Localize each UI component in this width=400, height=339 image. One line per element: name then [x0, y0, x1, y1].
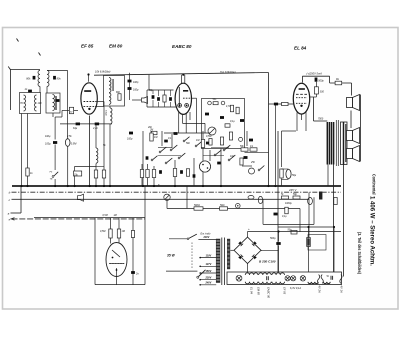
- resistor R24: [280, 169, 283, 178]
- svg-text:EM 80: EM 80: [257, 287, 261, 295]
- capacitor C1 1n: [28, 90, 32, 93]
- detector pin circle: [208, 101, 212, 105]
- capacitor C36 oval: [258, 196, 262, 203]
- capacitor C21: [308, 197, 313, 204]
- wire sw verticals: [161, 131, 163, 146]
- resistor R8 50n: [213, 102, 218, 105]
- svg-text:EM 80: EM 80: [109, 44, 123, 49]
- capacitor C11: [169, 97, 172, 101]
- wire det drop: [148, 75, 150, 90]
- resistor R2 0,5M oval: [65, 139, 70, 147]
- wire bus e: [12, 218, 146, 220]
- wire tube pins down: [178, 112, 180, 133]
- capacitor C5b 2,2n: [95, 123, 99, 126]
- svg-text:50µ: 50µ: [292, 174, 297, 177]
- heater winding w5: [323, 282, 330, 284]
- tube EM80 cathode: [116, 268, 118, 277]
- output transformer Tr2 windings: [326, 122, 328, 165]
- IF coil L2: [47, 70, 49, 86]
- capacitor C8 100p: [129, 132, 133, 135]
- switch S4: [178, 157, 180, 159]
- capacitor C37: [274, 213, 278, 216]
- capacitor C6 100p: [128, 80, 132, 83]
- resistor R23 1M: [282, 102, 289, 105]
- svg-text:Ton 6,8kΩ(w): Ton 6,8kΩ(w): [220, 70, 236, 74]
- svg-text:0,5M: 0,5M: [100, 230, 105, 233]
- bridge diodes: [238, 241, 243, 246]
- wire EF85 screen to rail: [88, 75, 90, 82]
- wire L2 down: [46, 86, 48, 93]
- wire bridge plus vertical: [247, 232, 249, 238]
- transformer feed top: [198, 238, 216, 240]
- wire minus down: [247, 264, 249, 273]
- resistor R22 Rx: [335, 81, 342, 85]
- resistor R19 50: [220, 207, 228, 210]
- wire heater link: [262, 199, 264, 224]
- capacitor C23: [249, 139, 253, 142]
- speaker LS1: [347, 98, 353, 108]
- switch S3: [170, 149, 172, 151]
- tube EL84 grids: [296, 93, 307, 95]
- tube EL84 anode bar: [299, 88, 305, 90]
- small parts row y196: [282, 196, 289, 199]
- resistor R10: [229, 132, 232, 140]
- transformer tap wires: [200, 257, 217, 259]
- capacitor C22 0,1: [285, 207, 288, 214]
- wire output rail: [302, 75, 329, 77]
- wire grid: [74, 110, 78, 112]
- tube EF85 cathode dot: [88, 108, 90, 110]
- capacitor C31: [146, 156, 149, 159]
- wire EABC top: [181, 75, 183, 84]
- wire eye top line: [34, 217, 145, 219]
- svg-text:50p: 50p: [149, 89, 154, 92]
- capacitor C16: [174, 132, 178, 135]
- svg-text:0,1µ: 0,1µ: [230, 120, 235, 123]
- heater winding w3: [272, 273, 285, 275]
- wire eye pin down: [116, 277, 118, 285]
- tube EABC80 anode bar: [183, 90, 188, 92]
- resistor R21: [334, 198, 337, 205]
- resistor R9 4,7k: [230, 105, 233, 112]
- svg-text:EL 84: EL 84: [294, 46, 307, 51]
- wire bus c: [12, 198, 310, 200]
- svg-text:(+)250V 5mA: (+)250V 5mA: [307, 71, 323, 75]
- wire det bottom: [147, 106, 176, 108]
- IF can 2 outline: [104, 76, 125, 107]
- output transformer core: [335, 120, 337, 166]
- wire speaker common: [360, 95, 362, 162]
- tube EL84 anode out: [309, 96, 313, 98]
- potentiometer P3: [208, 127, 216, 135]
- capacitor C4 33u: [74, 171, 82, 176]
- svg-text:EL 84: EL 84: [250, 287, 254, 294]
- heater winding w2: [259, 273, 272, 275]
- wire diode line: [147, 89, 174, 91]
- svg-text:1M: 1M: [114, 215, 117, 217]
- winding separator 1: [318, 275, 320, 284]
- switch link dashed: [191, 243, 193, 270]
- resistor R17 1M: [201, 140, 204, 148]
- eye bottom line: [95, 284, 145, 286]
- tube EABC80 cathode circles: [178, 104, 182, 108]
- wire sw drop1: [193, 158, 195, 186]
- capacitor C10: [157, 97, 160, 101]
- motor symbol: [236, 204, 241, 209]
- pilot lamp La1: [236, 275, 242, 281]
- resistor R16: [173, 169, 176, 177]
- primary winding: [216, 239, 220, 283]
- eye left leg: [94, 218, 96, 285]
- tube EM80 deflector: [112, 250, 120, 257]
- svg-text:4V 2A: 4V 2A: [318, 286, 322, 294]
- svg-text:100p: 100p: [133, 89, 139, 92]
- junctions right: [277, 230, 279, 232]
- capacitor C17: [159, 170, 162, 174]
- stray pen mark: [17, 39, 19, 42]
- svg-text:0,5M: 0,5M: [206, 135, 211, 138]
- coil L8: [109, 93, 111, 104]
- wire 33u feed: [75, 165, 96, 167]
- svg-text:2,5k: 2,5k: [66, 135, 72, 138]
- capacitor C32: [164, 140, 168, 143]
- switch S7: [223, 149, 225, 151]
- resistor R32: [209, 139, 212, 146]
- resistor R7: [163, 95, 166, 102]
- svg-text:50Ω: 50Ω: [220, 204, 225, 207]
- tube EL84 V3 envelope: [293, 83, 309, 114]
- svg-text:100p: 100p: [127, 138, 133, 141]
- svg-text:Continental: Continental: [372, 174, 377, 195]
- wire det link: [132, 99, 142, 101]
- capacitor C18: [180, 170, 183, 174]
- wire stub a: [11, 212, 22, 214]
- tube EABC80 triode grid: [183, 97, 191, 99]
- wire cap column: [129, 73, 131, 100]
- coupling box lower coils: [20, 93, 41, 114]
- svg-text:35 W: 35 W: [167, 254, 176, 258]
- wire top right rail: [278, 226, 335, 228]
- tube EF85 anode bar: [84, 90, 91, 92]
- capacitor C5 64u: [76, 123, 80, 126]
- svg-text:1 406 W – Stereo Achtm.: 1 406 W – Stereo Achtm.: [369, 196, 376, 266]
- tube EF85 grids: [84, 101, 96, 103]
- mains switch S9: [187, 238, 189, 240]
- wire x308 drop: [308, 227, 310, 272]
- detector pin circle 2: [221, 101, 225, 105]
- svg-text:500p: 500p: [318, 79, 324, 82]
- coil L4: [35, 95, 37, 111]
- wire speaker feed: [351, 83, 353, 96]
- wire bus b: [12, 191, 342, 193]
- winding separator 2: [340, 275, 342, 284]
- tube EABC80 V2 envelope: [175, 83, 191, 114]
- screen bypass line: [60, 123, 112, 125]
- svg-text:+: +: [248, 227, 250, 231]
- svg-text:500Ω: 500Ω: [194, 204, 200, 207]
- resistor R33 300: [314, 87, 318, 94]
- wire g2 drop: [103, 102, 105, 171]
- svg-text:EABC 80: EABC 80: [267, 287, 271, 299]
- wire plus rail: [248, 231, 342, 233]
- heater bus enclosure: [227, 272, 342, 285]
- switch S6: [214, 154, 216, 156]
- capacitor C24 500p: [315, 78, 318, 82]
- wire can2 down: [52, 113, 54, 117]
- svg-text:EF 85: EF 85: [81, 44, 94, 49]
- resistor R4: [102, 170, 105, 178]
- svg-text:100: 100: [38, 102, 43, 105]
- wire sw drop2: [209, 150, 211, 161]
- transformer core: [221, 238, 223, 286]
- svg-text:(3. Teil des Schaltbildes): (3. Teil des Schaltbildes): [357, 232, 362, 274]
- svg-text:240V: 240V: [205, 282, 212, 285]
- switch S8: [228, 159, 230, 161]
- tube EABC80 divider: [178, 87, 180, 107]
- wire vol down: [220, 149, 222, 187]
- capacitor C35 oval: [248, 196, 254, 200]
- wire box to el84 drop: [245, 151, 269, 153]
- svg-text:EF 85: EF 85: [283, 287, 287, 295]
- wire x334 drop: [333, 227, 335, 272]
- tube EM80 target: [109, 263, 124, 265]
- svg-text:2,2n: 2,2n: [92, 127, 98, 130]
- secondary winding HT: [227, 239, 230, 269]
- switch S5: [165, 162, 167, 164]
- svg-text:1M: 1M: [154, 136, 157, 139]
- grid network C25: [274, 103, 278, 106]
- resistor R30 50u: [291, 230, 297, 234]
- svg-text:220V: 220V: [205, 277, 212, 280]
- tube EL84 cathode dot: [300, 105, 302, 107]
- svg-text:300: 300: [320, 91, 325, 94]
- wire cathode drop: [281, 131, 283, 167]
- capacitor C1b 80s: [53, 76, 56, 80]
- wire bridge right vertex: [261, 250, 279, 252]
- capacitor C29: [266, 276, 268, 280]
- switch S10: [195, 145, 197, 147]
- heater winding w4: [308, 282, 318, 284]
- resistor R27: [131, 231, 134, 238]
- capacitor C14: [205, 113, 209, 116]
- tube EF85 V1 envelope: [81, 83, 97, 114]
- svg-text:0,5M: 0,5M: [103, 215, 108, 217]
- resistor R9b 1M: [236, 107, 239, 114]
- svg-text:Em.-trafo: Em.-trafo: [201, 232, 212, 235]
- wire avc drop: [67, 70, 69, 139]
- wire EL84 top: [301, 76, 303, 82]
- pilot lamp La4: [300, 276, 305, 281]
- svg-text:10k 6,8kΩ(w): 10k 6,8kΩ(w): [95, 70, 111, 74]
- voltage selector arm: [197, 276, 199, 278]
- capacitor C30: [330, 276, 332, 280]
- wire grid left: [62, 110, 69, 112]
- tube EM80 V4 envelope: [106, 243, 127, 277]
- wire a riser: [20, 186, 22, 213]
- capacitor C15: [206, 142, 210, 145]
- switch S2: [159, 151, 161, 153]
- cathode cap C26 50u: [286, 169, 291, 178]
- resistor R25 0,5M: [109, 229, 112, 238]
- IF coil L1: [38, 70, 40, 86]
- svg-text:100p: 100p: [133, 81, 139, 84]
- svg-text:240V: 240V: [203, 236, 210, 239]
- resistor R15: [152, 170, 155, 178]
- wire antenna top rail: [10, 69, 40, 71]
- wire rail drop right: [268, 73, 270, 187]
- svg-text:EABC 80: EABC 80: [172, 44, 192, 49]
- svg-text:1M: 1M: [122, 230, 125, 233]
- svg-text:4V 1A: 4V 1A: [340, 286, 344, 294]
- resistor R9c: [225, 124, 230, 127]
- svg-text:1M: 1M: [196, 139, 199, 142]
- resistor R5: [118, 94, 121, 101]
- wire ls1 down: [350, 111, 352, 129]
- output transformer secondary: [341, 122, 348, 165]
- bridge rectifier B250C100: [234, 237, 261, 263]
- svg-text:2M: 2M: [149, 130, 153, 132]
- capacitor C2 100u: [53, 141, 57, 144]
- capacitor C9 50p: [152, 95, 155, 99]
- svg-text:0,1µ: 0,1µ: [282, 216, 287, 218]
- svg-text:7000: 7000: [318, 119, 324, 121]
- ground symbol circle-slash: [164, 194, 170, 200]
- second box: [46, 93, 60, 113]
- svg-text:64µ: 64µ: [73, 127, 78, 130]
- circle pin: [239, 137, 243, 141]
- wire box left down: [21, 114, 23, 187]
- capacitor C27 2n: [131, 271, 135, 274]
- coil L9 bottom: [110, 108, 112, 124]
- antenna hook: [8, 67, 10, 70]
- pilot lamp La2: [285, 276, 290, 281]
- resistor R29: [186, 169, 189, 177]
- coil L3: [24, 95, 26, 111]
- resistor R20 dark: [319, 192, 322, 200]
- capacitor C2b 2n: [56, 99, 60, 102]
- tube EF85 g2 g3 wires: [95, 101, 104, 103]
- junction dots on B+ bus: [20, 185, 22, 187]
- eye right leg: [144, 186, 146, 285]
- speaker LS3: [347, 149, 353, 159]
- resistor R3: [94, 170, 97, 178]
- resistor R13: [140, 170, 143, 178]
- wire riser x275: [274, 104, 276, 186]
- wire cathode drop: [89, 116, 91, 187]
- svg-text:25k: 25k: [250, 161, 256, 164]
- wire B+ main bus 245V: [12, 185, 341, 187]
- switch S1: [52, 176, 54, 178]
- wire sw vertical k1: [142, 131, 144, 186]
- resistor R12 1M: [150, 133, 153, 141]
- capacitor C33: [217, 162, 221, 165]
- svg-text:110V: 110V: [206, 254, 212, 257]
- capacitor C7 100p: [128, 87, 132, 90]
- svg-text:6,3V 0,1A: 6,3V 0,1A: [290, 287, 301, 290]
- wire left drop: [10, 70, 12, 110]
- svg-text:1000µ: 1000µ: [285, 202, 292, 205]
- svg-text:100µ: 100µ: [45, 135, 51, 138]
- capacitor C1a 80k: [33, 76, 36, 80]
- svg-text:500µ: 500µ: [270, 237, 276, 240]
- capacitor C28 500u: [276, 242, 280, 245]
- choke L6: [96, 148, 98, 163]
- wire +B top rail: [94, 73, 269, 76]
- resistor R28: [307, 238, 311, 247]
- wire sec down: [333, 165, 335, 273]
- resistor R18 500: [194, 207, 203, 210]
- svg-text:150V: 150V: [206, 270, 212, 273]
- coil L7: [109, 78, 111, 93]
- capacitor C13: [220, 116, 224, 119]
- switch S11: [183, 140, 185, 142]
- wire mains lead 2: [166, 270, 197, 272]
- wire tone line: [167, 208, 300, 210]
- wire x309: [308, 192, 310, 247]
- grid resistor box 20: [69, 107, 73, 113]
- wire k branch: [54, 117, 56, 140]
- svg-text:B 250 C100: B 250 C100: [259, 260, 276, 264]
- wire riser x278: [277, 131, 279, 272]
- socket J1: [199, 161, 210, 172]
- resistor R14: [146, 170, 149, 178]
- svg-text:0,5µA: 0,5µA: [105, 110, 108, 116]
- svg-text:127V: 127V: [206, 263, 212, 266]
- svg-text:0,5M: 0,5M: [71, 143, 77, 146]
- tube EABC80 grid wire out: [191, 97, 196, 99]
- speaker LS2: [347, 131, 353, 141]
- wire grid line: [269, 103, 294, 105]
- fuse box: [308, 235, 326, 251]
- wire bridge ac left: [230, 249, 234, 251]
- heater winding w1: [245, 273, 258, 275]
- capacitor C15b: [240, 119, 244, 122]
- connector trapezoid on c line: [78, 194, 84, 201]
- resistor R1 1k: [26, 168, 29, 176]
- resistor R26 1M: [117, 229, 120, 238]
- wire mains lead 1: [169, 238, 187, 240]
- wire jog: [329, 76, 331, 83]
- coil L5: [53, 95, 55, 111]
- wire L2 top link: [47, 69, 68, 71]
- switch bar S2-S5: [158, 147, 172, 149]
- wire cathode to bus: [281, 179, 283, 187]
- wire EL84 pins: [296, 113, 298, 132]
- svg-text:245 V: 245 V: [288, 188, 297, 192]
- svg-text:100µ: 100µ: [45, 143, 51, 146]
- dense block parts: [241, 148, 248, 151]
- wire x300: [299, 209, 301, 233]
- svg-text:20k: 20k: [147, 126, 153, 129]
- wire left of el84: [242, 165, 252, 167]
- resistor R31 2M: [151, 131, 157, 134]
- connector trapezoid det: [142, 97, 148, 104]
- volume control enclosure: [202, 99, 245, 149]
- switch S12: [151, 159, 153, 161]
- wire L1 to box: [39, 86, 41, 92]
- resistor R11: [220, 137, 223, 145]
- capacitor C34: [193, 174, 196, 177]
- pilot lamp La3: [291, 276, 296, 281]
